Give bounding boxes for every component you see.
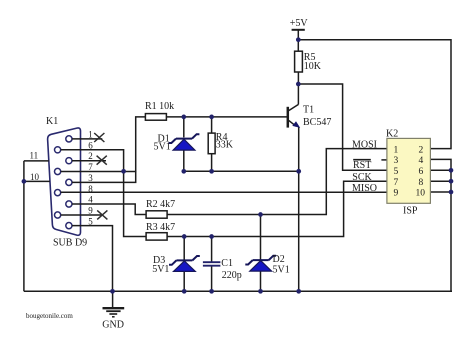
wire K1 pin 7 xyxy=(61,171,137,173)
K1 pin circle 7 xyxy=(55,168,61,174)
diode D1 branch wire xyxy=(183,117,185,171)
svg-text:3: 3 xyxy=(88,173,93,183)
svg-text:R1 10k: R1 10k xyxy=(145,101,174,112)
connector K1 body (SUB D9) xyxy=(48,128,81,235)
svg-text:SUB D9: SUB D9 xyxy=(53,237,87,248)
svg-text:RST: RST xyxy=(353,160,371,171)
svg-text:7: 7 xyxy=(88,162,93,172)
svg-text:11: 11 xyxy=(30,151,39,161)
transistor T1 emitter diagonal xyxy=(289,120,296,126)
no-connect X on pin 9 xyxy=(97,210,107,219)
capacitor C1 wires xyxy=(211,237,213,292)
+5V rail to K2 pin 2 xyxy=(298,40,451,149)
svg-text:MOSI: MOSI xyxy=(352,139,377,150)
wire D1 bottom to T1 emitter line xyxy=(184,170,299,172)
wire K1 pin 3 to R1 xyxy=(72,117,145,182)
svg-text:9: 9 xyxy=(88,206,93,216)
wire left vertical to ground rail xyxy=(23,161,25,291)
svg-text:GND: GND xyxy=(102,320,124,331)
wire shield 10 xyxy=(24,180,50,182)
no-connect X on pin 2 xyxy=(97,156,107,165)
svg-text:R3 4k7: R3 4k7 xyxy=(146,222,175,233)
resistor R4 leads xyxy=(211,117,213,171)
no-connect X on pin 1 xyxy=(94,133,107,219)
ground rail wire xyxy=(24,290,452,292)
wire shield 11 xyxy=(24,160,49,162)
svg-text:6: 6 xyxy=(419,167,424,177)
svg-text:R2 4k7: R2 4k7 xyxy=(146,199,175,210)
diode D2 branch wires xyxy=(260,215,262,292)
svg-text:T1: T1 xyxy=(303,104,314,115)
wire K1 pin 4 to R2 xyxy=(72,204,146,215)
svg-text:C1: C1 xyxy=(221,258,233,269)
svg-text:+5V: +5V xyxy=(290,18,309,29)
wire K1 pin 9 (n.c.) xyxy=(61,214,102,216)
resistor R3 xyxy=(146,233,167,240)
K1 pin circle 8 xyxy=(55,190,61,196)
K1 pin circle 4 xyxy=(66,201,72,207)
svg-text:5: 5 xyxy=(394,167,399,177)
svg-text:8: 8 xyxy=(419,178,424,188)
svg-text:5V1: 5V1 xyxy=(273,265,290,276)
svg-text:6: 6 xyxy=(88,140,93,150)
svg-text:3: 3 xyxy=(394,156,399,166)
wire R5 to T1 collector xyxy=(297,72,299,104)
svg-text:220p: 220p xyxy=(222,270,242,281)
K2 pin 3 stub xyxy=(381,159,387,161)
svg-text:9: 9 xyxy=(394,189,399,199)
svg-text:10: 10 xyxy=(416,189,426,199)
K1 pin circle 5 xyxy=(66,223,72,229)
svg-text:5V1: 5V1 xyxy=(152,264,169,275)
svg-text:1: 1 xyxy=(88,129,93,139)
svg-text:33K: 33K xyxy=(216,139,234,150)
wire R3 output = SCK to K2 pin 7 xyxy=(167,181,387,236)
K1 pin circle 6 xyxy=(55,147,61,153)
transistor T1 emitter arrow xyxy=(292,121,300,128)
resistor R4 xyxy=(208,133,215,154)
resistor R5 xyxy=(295,51,303,72)
svg-text:ISP: ISP xyxy=(403,205,418,216)
wire R2 output = MOSI to K2 pin 1 xyxy=(167,149,387,215)
wire T1 collector = RST to K2 pin 5 xyxy=(298,84,387,170)
svg-text:BC547: BC547 xyxy=(303,117,331,128)
K1 pin circle 2 xyxy=(66,158,72,164)
svg-text:7: 7 xyxy=(394,178,399,188)
wire K1 pin 5 to ground rail xyxy=(72,226,113,292)
svg-text:2: 2 xyxy=(88,151,93,161)
svg-text:K1: K1 xyxy=(46,116,58,127)
svg-text:SCK: SCK xyxy=(352,172,372,183)
wire T1 emitter to ground rail xyxy=(298,127,300,291)
resistor R2 xyxy=(146,211,167,218)
svg-text:D2: D2 xyxy=(273,254,285,265)
svg-text:5: 5 xyxy=(88,217,93,227)
svg-text:1: 1 xyxy=(394,145,399,155)
svg-text:8: 8 xyxy=(88,184,93,194)
svg-text:10K: 10K xyxy=(304,61,322,72)
svg-text:K2: K2 xyxy=(386,129,398,140)
capacitor C1 plates xyxy=(203,262,221,266)
svg-text:10: 10 xyxy=(30,172,40,182)
wire K1 pin 1 (n.c.) xyxy=(72,138,102,140)
wire K1 pin 6 to R3 left vertical xyxy=(61,150,146,237)
svg-text:2: 2 xyxy=(419,145,424,155)
svg-text:4: 4 xyxy=(419,156,424,166)
zener diode D1 xyxy=(169,134,200,150)
diode D3 branch wires xyxy=(183,237,185,292)
+5V wire to R5 xyxy=(297,30,299,51)
ground symbol xyxy=(112,291,114,307)
zener diode D2 xyxy=(245,256,276,271)
svg-text:5V1: 5V1 xyxy=(154,141,171,152)
wire K1 pin 8 = MISO to K2 pin 9 xyxy=(61,191,387,193)
zener diode D3 xyxy=(169,256,200,271)
wire K1 pin 2 (n.c.) xyxy=(72,160,106,162)
K2 right gnd wires pins 4,6,8,10 xyxy=(430,159,451,291)
transistor T1 collector diagonal xyxy=(289,104,299,110)
K1 pin circle 9 xyxy=(55,212,61,218)
svg-text:MISO: MISO xyxy=(352,183,377,194)
resistor R1 xyxy=(145,114,166,121)
svg-text:4: 4 xyxy=(88,195,93,205)
K1 pin circle 3 xyxy=(66,179,72,185)
+5V terminal bar xyxy=(292,29,305,31)
svg-text:bougetonile.com: bougetonile.com xyxy=(26,312,73,320)
connector K2 box xyxy=(387,138,431,203)
transistor T1 bar xyxy=(287,107,290,128)
wire R1 output to T1 base xyxy=(166,116,287,118)
K1 pin circle 1 xyxy=(66,136,72,142)
